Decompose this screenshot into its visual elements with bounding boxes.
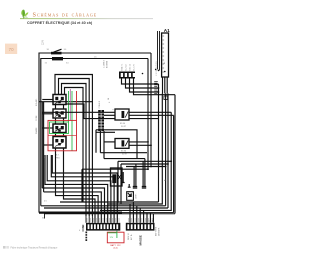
svg-text:CONN 8: CONN 8 [99,100,101,108]
wire fan 7 [56,155,99,223]
wire R1 out 1 [129,111,171,113]
header leaf logo [21,9,28,18]
wire fan 1 [52,155,117,223]
node dots left of A1 [155,69,157,71]
strip stubs left bar [86,216,92,223]
svg-text:Fiche technique Tracteurs Rena: Fiche technique Tracteurs Renault d'époq… [11,247,59,250]
left margin rotated labels [35,98,38,134]
switch box B2 [53,109,66,118]
red inner line [48,134,77,136]
multipin connector C1 (vertical 2-col) [98,110,104,131]
left inner rail x42.3 [41,102,43,188]
wire fan 6 [44,192,102,223]
red battery box [107,232,124,243]
wire R1 out 3 [129,118,159,120]
relay R2 [115,139,129,149]
svg-text:D+ 612: D+ 612 [125,64,127,70]
mass dashed mark [85,232,87,242]
svg-text:12V: 12V [110,237,114,239]
svg-text:DEMARR.: DEMARR. [157,227,160,236]
wire h132.3 [96,130,115,153]
terminal drop pair 2 [142,159,146,188]
svg-text:54: 54 [108,98,110,100]
wire mid drop x121 [120,164,122,204]
small inline connector on lead [164,96,168,100]
terminal foot mid [128,184,131,187]
wire feed R1 left [42,111,115,113]
wire right bundle v6 [173,115,175,212]
wire nested loop 2 [59,79,90,217]
wire bottom bus heavy [39,212,122,214]
wire bottom bus 1 [41,205,166,207]
svg-text:B.T.: B.T. [56,155,60,157]
wire green 2 [71,91,73,151]
svg-text:4 6: 4 6 [44,201,47,203]
wire green 1 [68,91,70,122]
wire right bundle v5 [100,112,171,210]
wire right bundle v2 [108,94,162,205]
nested loop wires top-left [55,75,92,217]
svg-text:30: 30 [47,49,50,51]
wire h152.7 [100,152,147,154]
component B7 (switch with bar) [111,168,123,186]
svg-text:Schémas de câblage: Schémas de câblage [33,12,98,19]
connector C2 pin labels [120,64,135,71]
wire mid drop x82 [81,169,83,202]
strip riser group right [130,202,153,223]
svg-text:CONN: CONN [83,224,85,231]
fuse F2 on rail 2 [52,57,63,60]
svg-text:15: 15 [45,63,48,65]
left fan staircase wires [42,155,117,223]
stub rail to B3 [42,127,53,129]
svg-text:ALT B+: ALT B+ [130,233,133,240]
svg-text:PHARE: PHARE [35,127,38,134]
terminal stub left [122,172,125,183]
svg-text:L: L [113,109,115,110]
wire C1 drop 1 [99,131,101,153]
wire C2 pin1 [122,79,159,85]
wire fan 4 [45,155,108,223]
svg-text:A2: A2 [163,62,166,64]
wire nested loop 1 [55,75,92,217]
stub below bus left [44,214,46,219]
wire B1 to R1 via x84 [66,104,115,119]
connector A1 pin ticks [163,36,165,72]
svg-text:85 86: 85 86 [120,123,126,125]
svg-text:C.OBN 4: C.OBN 4 [104,60,106,68]
stub B2-B3 [56,118,64,124]
strip pin labels row [87,218,152,222]
flasher unit (arrow box) [127,192,134,201]
wire rail2 right drop [147,59,149,170]
connector C2 (4-pin horizontal) [119,72,135,79]
small labels misc [42,62,167,232]
wire fan 2 [51,155,114,223]
svg-text:FEU: FEU [56,158,60,160]
svg-text:B+ 173: B+ 173 [133,64,135,70]
footer boxes [3,246,6,249]
wire red riser [76,91,78,120]
connector A1 lower pin label column [154,82,158,94]
svg-text:30 87: 30 87 [122,154,128,156]
wire C1 drop 2 [103,131,105,159]
stub rail to B4 [44,144,53,146]
wire mid band 5 [82,168,148,170]
svg-text:CENT.: CENT. [136,193,138,199]
wire mid band 4 [126,166,166,168]
orange page number badge 70 [5,44,17,54]
wire C1 to R2 [104,141,115,143]
wire C1 to R1 [104,114,115,116]
wire bottom bus heavy right [122,212,174,214]
wire R1 out 2 [129,114,174,116]
stub B4 down [56,148,64,155]
switch S1 on rail 1 [51,49,62,54]
wire right bundle v3 [165,94,167,206]
svg-text:BOBINE: BOBINE [107,60,109,68]
stub B3-B4 [56,133,64,137]
green wire into red box [108,231,117,238]
svg-text:CODE: CODE [36,115,38,121]
terminal drop pair 1 [133,164,137,188]
stub B1-B2 [56,105,64,110]
wire violet [69,89,71,120]
svg-text:EXC 15: EXC 15 [129,64,131,71]
wire top supply rail 1 [39,53,151,213]
svg-text:MASSE: MASSE [139,235,143,245]
junction dots [104,73,173,212]
svg-text:ECLAIR.: ECLAIR. [35,98,38,106]
wire R2 out 2 [129,144,151,146]
wire mid band 1 [104,158,145,160]
svg-text:BATTERIE: BATTERIE [154,226,157,236]
connector A1 upper feed wires [158,31,160,70]
wire top supply rail 2 [41,59,148,206]
svg-text:54: 54 [66,63,69,65]
wire h129.8 [96,130,137,159]
wire mid drop x118 [117,161,119,202]
svg-text:12 V: 12 V [42,40,45,45]
connector A1 body [162,33,169,77]
switch box B3 [53,124,66,133]
red highlight box around B4 [48,120,77,150]
wire fan 5 [42,188,104,223]
green highlight box around B3 [50,122,69,134]
stub rail to B1 [42,99,53,101]
wire C2 pin3 [130,79,159,93]
svg-text:(14): (14) [114,248,118,250]
wire C2 pin4 [134,79,176,95]
svg-text:50: 50 [64,49,67,51]
svg-text:BATT. 12V: BATT. 12V [110,244,121,247]
svg-text:DEM 50: DEM 50 [128,233,130,240]
wire mid band 2 [118,160,171,162]
svg-text:6: 6 [79,230,80,232]
terminal strip bar 1 [86,223,120,231]
svg-text:B.ALT 1: B.ALT 1 [120,64,123,71]
wire fan 3 [47,155,111,223]
wire mid band 3 [121,163,168,165]
wire C2 pin2 [126,79,159,89]
wire nested loop 4 [65,88,84,203]
fuse labels [45,49,98,65]
switch box B4 [53,137,66,149]
green/gray rule under title [20,17,153,20]
svg-text:12: 12 [44,157,46,159]
wire fan 8 [64,155,96,223]
svg-text:31: 31 [42,218,44,220]
wire right outer drop [174,95,176,214]
bottom bus lines [39,202,175,214]
relay R1 [115,109,129,120]
switch box B1 [53,95,66,105]
svg-text:70: 70 [9,47,14,52]
svg-text:X: X [109,101,111,103]
wire bottom bus 2 [44,207,168,209]
wire right bundle v1 [158,84,160,202]
connector A1 body leads down [163,77,168,94]
wire rail1 right drop [150,53,152,167]
wire bottom bus 0 [60,201,159,203]
wire R2 out 1 [129,141,148,143]
left inner rail x43.6 [43,102,45,192]
svg-text:30 87: 30 87 [121,126,127,128]
wire nested loop 3 [62,84,87,217]
horizontal feed rail y101.7 [39,101,92,103]
wire bottom bus 4 [44,213,175,215]
svg-text:COFFRET ÉLECTRIQUE (34 et 40 c: COFFRET ÉLECTRIQUE (34 et 40 ch) [27,20,93,25]
wire right bundle v4 [167,94,169,209]
terminal strip bar 2 [126,223,155,231]
svg-text:A1: A1 [164,28,170,33]
stub rail to B2 [42,113,53,115]
